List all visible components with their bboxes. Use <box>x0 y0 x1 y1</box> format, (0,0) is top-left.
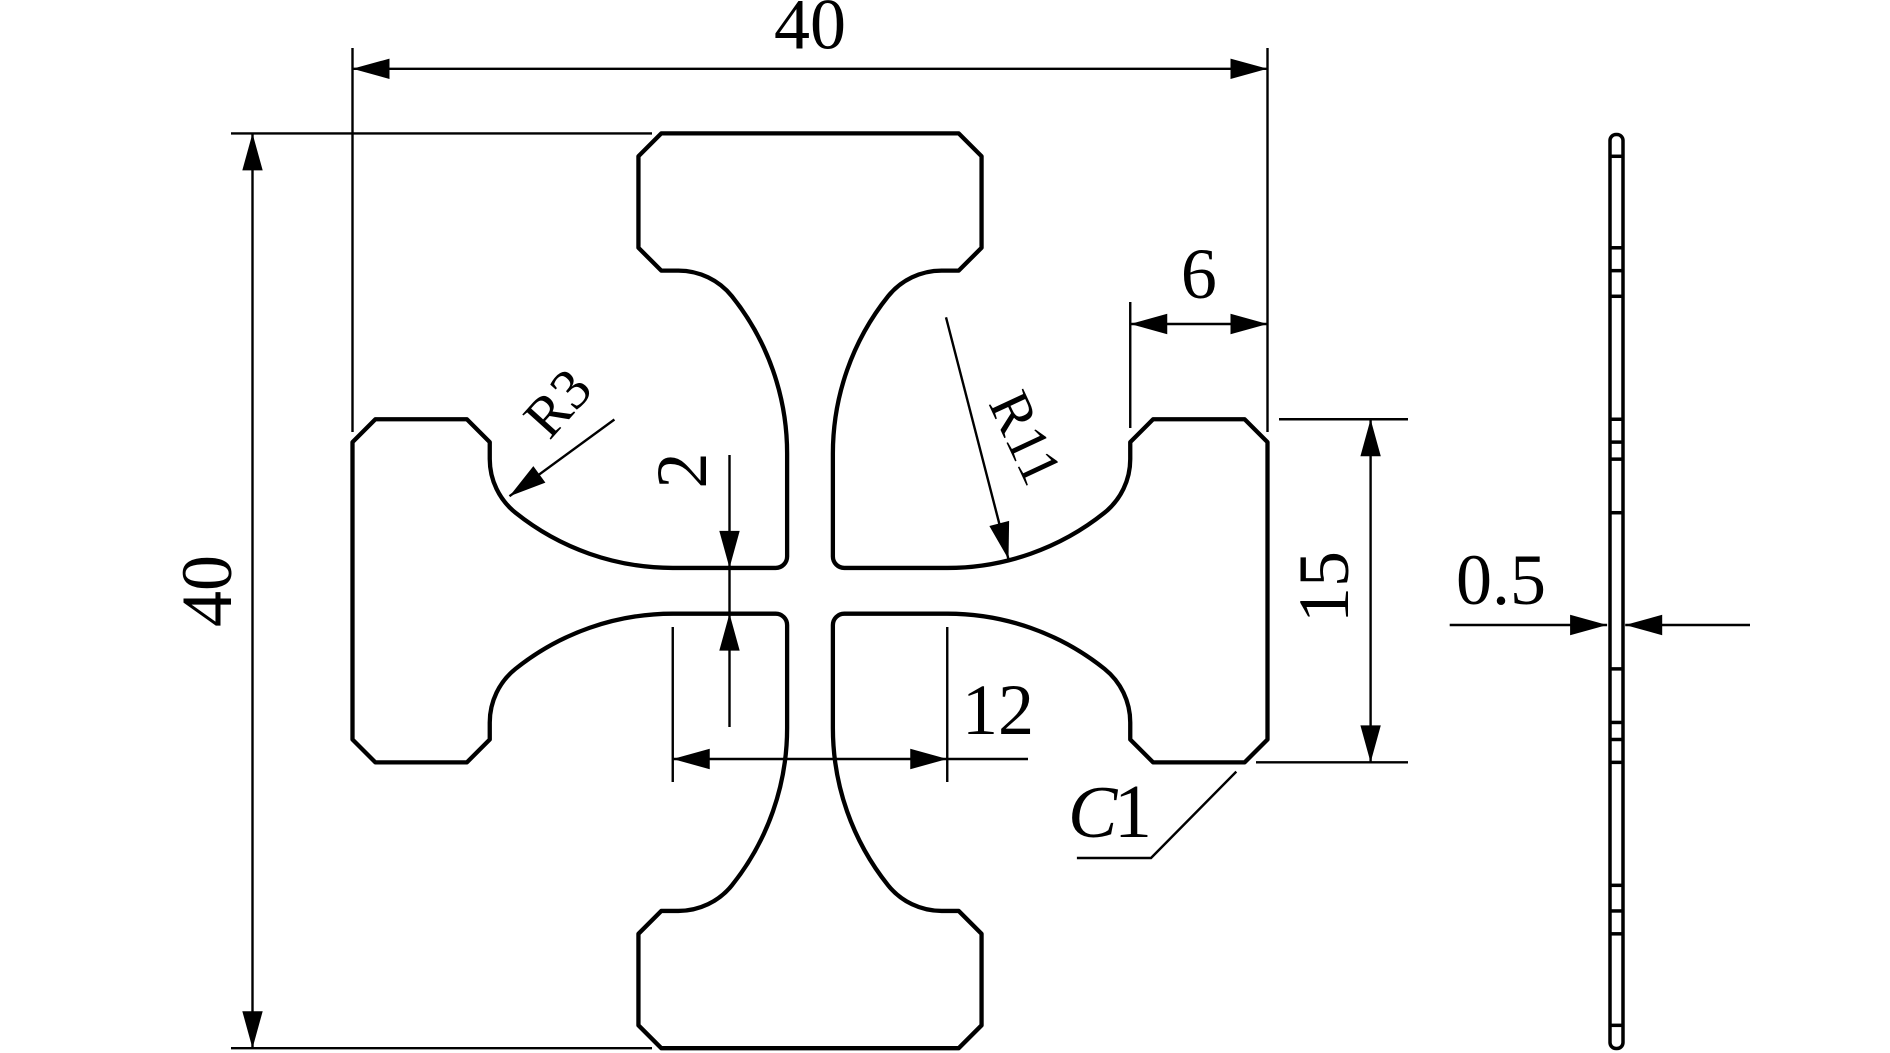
side view: side fillet tangent line <box>1610 457 1623 461</box>
extension line: 40 top, left <box>351 48 353 432</box>
svg-text:C: C <box>1068 772 1119 854</box>
dimension line: 12 with tail <box>673 758 1028 760</box>
leader line: C1 <box>1077 772 1236 858</box>
dimension line: 0.5 right segment <box>1625 624 1750 626</box>
svg-text:12: 12 <box>962 670 1034 750</box>
side view: bottom head inner edge line <box>1610 909 1623 913</box>
arrowhead: 0.5 right (points left) <box>1625 615 1662 635</box>
dimension line: 40 top <box>353 68 1268 70</box>
extension line: 15, bottom <box>1256 761 1408 763</box>
side view: side head top chamfer line <box>1610 440 1623 444</box>
side view: side taper joint line <box>1610 511 1623 515</box>
side view: bottom taper joint line <box>1610 884 1623 888</box>
arrowhead: 6 right <box>1231 314 1268 334</box>
side view: top head inner chamfer line <box>1610 246 1623 250</box>
side view: plate outline (0.5 thick) <box>1610 135 1623 1049</box>
dimension line: 2 (through centre strip) <box>728 455 730 727</box>
side view: side taper joint line (lower) <box>1610 667 1623 671</box>
arrowhead: 12 right <box>910 749 947 769</box>
arrowhead: 12 left <box>673 749 710 769</box>
arrowhead: 15 top <box>1360 419 1380 456</box>
arrowhead: 2 lower (points up) <box>719 614 739 651</box>
svg-text:6: 6 <box>1181 234 1217 314</box>
side view: top head inner edge line <box>1610 269 1623 273</box>
svg-text:40: 40 <box>774 0 846 65</box>
arrowhead: R3 leader <box>510 466 546 496</box>
arrowhead: 2 upper (points down) <box>719 531 739 568</box>
dimension line: 15 <box>1369 419 1371 762</box>
cruciform specimen outline (front view) <box>353 133 1268 1048</box>
leader line: R3 <box>510 420 615 497</box>
arrowhead: 40 top right <box>1231 59 1268 79</box>
arrowhead: 0.5 left (points right) <box>1570 615 1607 635</box>
arrowhead: 40 top left <box>353 59 390 79</box>
svg-text:1: 1 <box>1114 770 1152 854</box>
side view: side head bottom chamfer line <box>1610 738 1623 742</box>
extension line: 12, right <box>946 627 948 782</box>
side view: side head bottom edge line <box>1610 761 1623 765</box>
side view: bottom head inner chamfer line <box>1610 932 1623 936</box>
arrowhead: 40 left bottom <box>242 1011 262 1048</box>
svg-text:15: 15 <box>1284 551 1364 623</box>
leader line: R11 <box>946 317 1009 559</box>
arrowhead: 6 left <box>1130 314 1167 334</box>
side view: side head top edge line <box>1610 417 1623 421</box>
arrowhead: 15 bottom <box>1360 725 1380 762</box>
extension line: 12, left <box>672 627 674 782</box>
extension line: 40 left, top <box>231 132 652 134</box>
extension line: 40 left, bottom <box>231 1047 652 1049</box>
arrowhead: R11 leader <box>989 521 1009 559</box>
svg-text:2: 2 <box>642 453 722 489</box>
extension line: 40 top, right <box>1266 48 1268 432</box>
extension line: 6, left <box>1129 302 1131 428</box>
dimension line: 0.5 left segment <box>1450 624 1607 626</box>
side view: top taper joint line <box>1610 295 1623 299</box>
arrowhead: 40 left top <box>242 133 262 170</box>
svg-text:0.5: 0.5 <box>1456 540 1546 620</box>
svg-text:40: 40 <box>167 555 247 627</box>
side view: top head chamfer line <box>1610 155 1623 159</box>
dimension line: 6 <box>1130 323 1267 325</box>
extension line: 15, top <box>1279 418 1408 420</box>
side view: side fillet tangent line (lower) <box>1610 721 1623 725</box>
dimension line: 40 left <box>251 133 253 1048</box>
side view: bottom head chamfer line <box>1610 1024 1623 1028</box>
